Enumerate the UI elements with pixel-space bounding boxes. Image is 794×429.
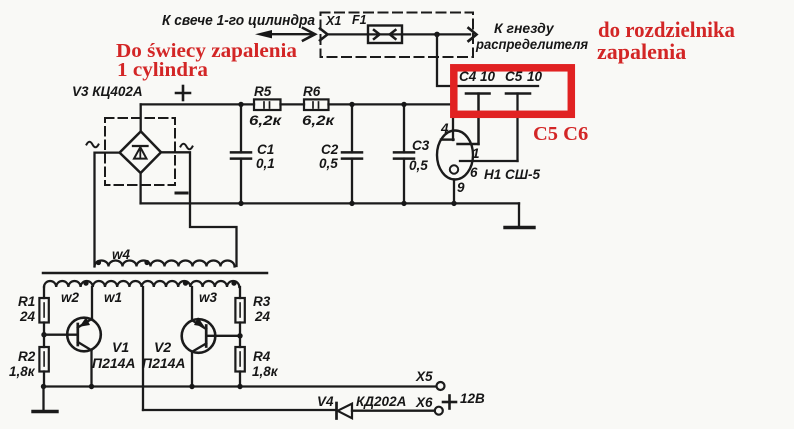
wire: rail to ground left (42, 387, 44, 412)
resistor R2 (39, 347, 48, 372)
wire: bottom rail (44, 385, 437, 387)
svg-text:C5 C6: C5 C6 (533, 123, 588, 145)
plus sign (176, 86, 190, 100)
svg-text:X6: X6 (415, 395, 433, 410)
wire: minus rail to ground (518, 203, 520, 227)
wire: X1 to fuse (328, 33, 369, 35)
label C5 10 (505, 69, 543, 84)
transformer winding w2 w1 w3 row (44, 281, 239, 287)
wire: w1 centre tap down (142, 287, 144, 410)
tube electrode pin 4 (441, 138, 454, 140)
svg-text:w3: w3 (199, 290, 218, 305)
terminal X5 (437, 382, 445, 390)
node dots on + rail (238, 102, 406, 107)
svg-text:V2: V2 (154, 339, 171, 355)
wire: tube pin 4 lead (452, 104, 454, 140)
svg-text:С2: С2 (321, 142, 339, 157)
wire: diode to X6 (352, 410, 435, 412)
svg-text:R5: R5 (254, 84, 272, 99)
svg-text:zapalenia: zapalenia (597, 39, 686, 64)
svg-text:24: 24 (19, 309, 36, 324)
svg-text:R3: R3 (253, 294, 271, 309)
svg-text:9: 9 (457, 180, 465, 195)
svg-text:Н1 СШ-5: Н1 СШ-5 (484, 167, 540, 182)
minus sign (176, 192, 187, 195)
node dot winding w2 (83, 281, 88, 286)
ac tilde left (87, 142, 99, 148)
wire: base lead V2 (206, 335, 240, 337)
transistor V1 (67, 317, 101, 351)
node dots bottom rail (41, 384, 243, 389)
wire: fuse to distributor output (402, 33, 470, 35)
transformer winding w4 (95, 261, 235, 267)
dashed box (ignition unit boundary) (321, 13, 474, 58)
wire: bridge left ac lead (95, 153, 120, 266)
wire: R1 to R2 (43, 323, 45, 348)
svg-text:R1: R1 (18, 294, 35, 309)
tube H1 envelope (437, 131, 473, 180)
svg-text:R4: R4 (253, 349, 271, 364)
capacitor C1 (231, 104, 251, 203)
node dot base V1 (41, 332, 46, 337)
node: junction on output wire (434, 32, 440, 38)
svg-text:1 cylindra: 1 cylindra (117, 59, 208, 81)
wire: R4 to bottom rail (239, 372, 241, 387)
svg-text:К гнезду: К гнезду (494, 20, 555, 36)
svg-text:0,5: 0,5 (409, 158, 428, 173)
ac tilde right (181, 144, 193, 150)
svg-text:6,2к: 6,2к (249, 113, 282, 128)
svg-text:24: 24 (254, 309, 271, 324)
svg-text:V4: V4 (317, 394, 334, 409)
svg-text:С1: С1 (257, 142, 274, 157)
wire: C4 lead to pin 1 (477, 94, 479, 144)
wire: V1 emitter to winding (91, 287, 93, 319)
svg-text:П214А: П214А (142, 355, 186, 371)
svg-text:X1: X1 (325, 14, 341, 28)
svg-text:распределителя: распределителя (475, 36, 588, 52)
svg-text:F1: F1 (352, 13, 367, 27)
plus sign 12V (443, 396, 456, 409)
dashed box around bridge (105, 118, 175, 185)
wire: base lead V1 (44, 334, 78, 336)
wire: w3 right end to R3 (239, 287, 241, 298)
wire: bridge + output up (140, 104, 142, 131)
svg-text:w1: w1 (104, 290, 122, 305)
wire: R2 to bottom rail (43, 372, 45, 387)
resistor R1 (39, 298, 48, 323)
wire: w2 left end to R1 (43, 287, 45, 298)
node dot winding w1 (183, 281, 188, 286)
svg-text:К свече 1-го цилиндра: К свече 1-го цилиндра (162, 13, 315, 29)
red highlight box (454, 68, 572, 115)
transistor V2 (182, 317, 216, 353)
wire: centre tap to diode V4 (143, 409, 336, 411)
node dots on - rail (238, 201, 456, 206)
transformer core (43, 272, 267, 275)
svg-text:1: 1 (472, 146, 480, 161)
svg-text:6,2к: 6,2к (302, 113, 335, 128)
ground (left) (33, 410, 57, 413)
connector X1 chevron (320, 29, 328, 41)
node dot winding w3 (231, 281, 236, 286)
capacitor C3 (394, 104, 414, 203)
tube electrode pin 1 (458, 143, 479, 145)
svg-text:X5: X5 (415, 369, 433, 384)
ground (right) (505, 226, 534, 229)
capacitor C2 (342, 104, 362, 203)
svg-text:V3 КЦ402А: V3 КЦ402А (72, 84, 143, 99)
svg-text:w2: w2 (61, 290, 80, 305)
label: К гнезду распределителя (475, 20, 588, 52)
red note: do rozdzielnika zapalenia (597, 17, 735, 64)
wire: V1 collector to rail (90, 350, 92, 386)
wire: + rail (141, 103, 453, 105)
svg-text:0,1: 0,1 (256, 156, 275, 171)
bridge inner diode (133, 146, 148, 159)
node dot on w4 left (96, 260, 101, 265)
capacitor C4 (466, 94, 490, 145)
svg-text:R2: R2 (18, 349, 36, 364)
svg-text:1,8к: 1,8к (252, 364, 279, 379)
bridge rectifier V3 diamond (120, 131, 161, 173)
wire: junction down to C4/C5 bus (437, 34, 538, 86)
tube cathode circle (450, 165, 458, 173)
arrow to distributor (469, 28, 477, 41)
svg-text:R6: R6 (303, 84, 321, 99)
svg-text:6: 6 (470, 165, 478, 180)
wire: pin 6 electrode to C5 (460, 160, 518, 162)
svg-text:V1: V1 (112, 339, 129, 355)
wire: tube pin 9 lead (453, 180, 455, 204)
resistor R3 (235, 298, 244, 323)
terminal X6 (435, 407, 443, 415)
resistor R6 (304, 99, 329, 110)
resistor R4 (235, 347, 244, 372)
wire: V2 emitter to winding (191, 287, 193, 320)
wire: minus rail (141, 202, 519, 204)
capacitor C5 (506, 94, 530, 162)
svg-text:4: 4 (440, 121, 449, 136)
fuse F1 (368, 26, 402, 44)
svg-text:П214А: П214А (92, 355, 136, 371)
svg-text:1,8к: 1,8к (9, 364, 36, 379)
wire: V2 collector to rail (191, 352, 193, 387)
svg-text:0,5: 0,5 (319, 156, 338, 171)
wire: bridge - output down (139, 173, 141, 203)
svg-text:12В: 12В (460, 391, 485, 406)
diode V4 (337, 403, 353, 419)
label C4 10 (459, 69, 496, 84)
wire: bridge right ac lead with jog to w4 (161, 152, 237, 266)
resistor R5 (254, 99, 281, 110)
svg-text:КД202А: КД202А (356, 394, 406, 409)
svg-text:С3: С3 (412, 138, 430, 153)
node dot on w4 mid (144, 260, 149, 265)
node dot base V2 (237, 333, 242, 338)
red note: Do świecy zapalenia 1 cylindra (116, 40, 297, 81)
wire: R3 to R4 (239, 323, 241, 348)
wire: double-headed arrow to spark plug (255, 28, 315, 41)
